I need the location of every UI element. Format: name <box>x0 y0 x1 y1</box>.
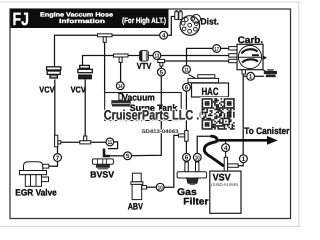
svg-text:Information: Information <box>59 18 105 25</box>
carburetor <box>237 44 267 69</box>
svg-text:VTV: VTV <box>137 61 152 71</box>
tee fitting on HAC drop line <box>179 131 189 142</box>
VCV 2 icon <box>78 65 92 78</box>
svg-text:10: 10 <box>195 156 200 162</box>
wire: VCV2 bottom stem <box>84 80 86 143</box>
svg-text:FJ: FJ <box>13 9 30 29</box>
wire: BVSV elbow lateral <box>110 155 124 157</box>
svg-text:10: 10 <box>158 186 163 192</box>
node 10 ABV <box>156 183 164 191</box>
svg-text:17: 17 <box>214 47 219 53</box>
elbow fitting at carb lower hose corner <box>158 59 165 66</box>
svg-text:SD413-04063: SD413-04063 <box>142 129 179 135</box>
svg-text:HAC: HAC <box>202 86 219 98</box>
svg-text:4: 4 <box>224 145 228 152</box>
node 7 EGR <box>54 154 62 162</box>
svg-text:Vacuum: Vacuum <box>122 92 155 102</box>
svg-text:11: 11 <box>184 68 189 74</box>
wire: EGR drop through circle 7 <box>49 143 58 167</box>
diagram border frame <box>10 9 291 219</box>
QR code watermark <box>200 97 236 131</box>
wire: EGR lateral y142 <box>56 141 110 143</box>
wire: T stem down to surge tank box <box>104 36 106 93</box>
svg-text:(For High ALT.): (For High ALT.) <box>122 16 166 25</box>
svg-text:6: 6 <box>185 155 189 162</box>
VTV icon <box>140 51 149 61</box>
distributor vacuum unit <box>175 11 182 20</box>
svg-text:To Canister: To Canister <box>244 125 289 136</box>
HAC icon plates <box>188 75 219 83</box>
vacuum surge tank box <box>105 93 182 121</box>
surge tank nipple <box>118 93 123 100</box>
svg-text:VCV: VCV <box>39 85 54 95</box>
VSV tee fitting <box>224 140 238 171</box>
T fitting on wire1 <box>98 34 113 43</box>
node 6 gas filter left <box>183 153 191 161</box>
wire: gas filter right pipe riser to canister hose <box>197 136 211 162</box>
svg-text:1: 1 <box>242 156 246 163</box>
carb bowl vent nipple <box>263 69 277 77</box>
wire: HAC drop to gas filter left pipe <box>185 91 187 162</box>
distributor cap <box>180 14 201 35</box>
node 11 BVSV <box>106 138 114 146</box>
svg-text:4: 4 <box>162 33 166 40</box>
BVSV icon <box>92 149 113 170</box>
svg-text:11: 11 <box>108 140 113 146</box>
node 6 HAC bottom <box>183 83 191 91</box>
node 17 carb top line <box>213 45 221 53</box>
svg-text:5: 5 <box>160 70 164 77</box>
VCV 1 icon <box>47 67 61 78</box>
node 5 BVSV <box>124 152 132 160</box>
svg-text:CruiserParts LLC .Co: CruiserParts LLC .Co <box>104 108 214 123</box>
svg-text:BVSV: BVSV <box>90 170 114 180</box>
ABV icon <box>131 173 147 199</box>
svg-text:13: 13 <box>155 54 160 60</box>
node 11 HAC top <box>183 66 191 74</box>
EGR valve icon <box>20 162 49 187</box>
wire 3: HAC corner run to carb top stub <box>187 48 230 65</box>
svg-text:14: 14 <box>118 84 123 90</box>
node 10 gas filter right <box>193 153 201 161</box>
svg-text:Carb.: Carb. <box>238 34 264 45</box>
wire 2: VCV2 to carb mid stub <box>83 56 230 66</box>
HAC label box <box>192 83 229 97</box>
svg-text:ABV: ABV <box>128 202 144 212</box>
wire: surge tank branch from T on wire2 <box>120 56 122 90</box>
node 5 upper <box>158 68 166 76</box>
node 14 surge tank <box>116 82 124 90</box>
wire 4: carb lower stub run <box>128 61 230 156</box>
carb left stubs <box>229 47 237 63</box>
hose hook curve to VSV tee <box>204 136 223 165</box>
svg-text:1: 1 <box>249 74 253 81</box>
wire: circle4 to distributor vacuum unit <box>164 17 176 36</box>
wire: ABV nipple link <box>144 186 157 188</box>
canister arrow <box>216 136 278 145</box>
node 1 carb bowl <box>247 72 255 80</box>
node 1 VSV right <box>240 155 248 163</box>
node 4 distributor <box>160 31 168 39</box>
node 4 VSV canister <box>222 144 230 152</box>
T fitting on EGR lateral at VCV1 stem <box>55 135 61 147</box>
svg-text:VCV: VCV <box>71 85 86 95</box>
node 13 VTV line <box>153 52 161 60</box>
wire: carb bowl vent through circle 1 <box>243 74 247 76</box>
wire: BVSV hook from circle 11 <box>108 142 118 149</box>
wire: ABV branch <box>164 135 186 187</box>
svg-text:7: 7 <box>56 155 60 162</box>
svg-text:EGR Valve: EGR Valve <box>15 188 57 198</box>
VSV box <box>210 171 241 213</box>
wire 1: VCV1 top run to circle 4 <box>55 35 164 66</box>
carb bottom stub <box>242 70 245 74</box>
surge tank body <box>111 100 131 106</box>
svg-text:(/U5D-5105R): (/U5D-5105R) <box>211 182 239 187</box>
header black bar <box>11 9 169 28</box>
part number text <box>142 129 179 135</box>
svg-text:6: 6 <box>185 85 189 92</box>
watermark CruiserParts <box>104 108 214 123</box>
svg-text:5: 5 <box>126 153 130 160</box>
T fitting on wire2 <box>114 54 129 63</box>
svg-text:Filter: Filter <box>183 196 208 207</box>
gas filter icon <box>177 162 207 185</box>
wire: VCV1 bottom stem <box>54 80 56 143</box>
svg-text:Dist.: Dist. <box>201 16 220 26</box>
svg-text:Engine Vaccum Hose: Engine Vaccum Hose <box>40 11 114 18</box>
circled hose numbers <box>54 31 255 191</box>
wire: VSV right riser <box>238 76 243 166</box>
T fitting on EGR lateral at VCV2 stem <box>80 136 91 144</box>
